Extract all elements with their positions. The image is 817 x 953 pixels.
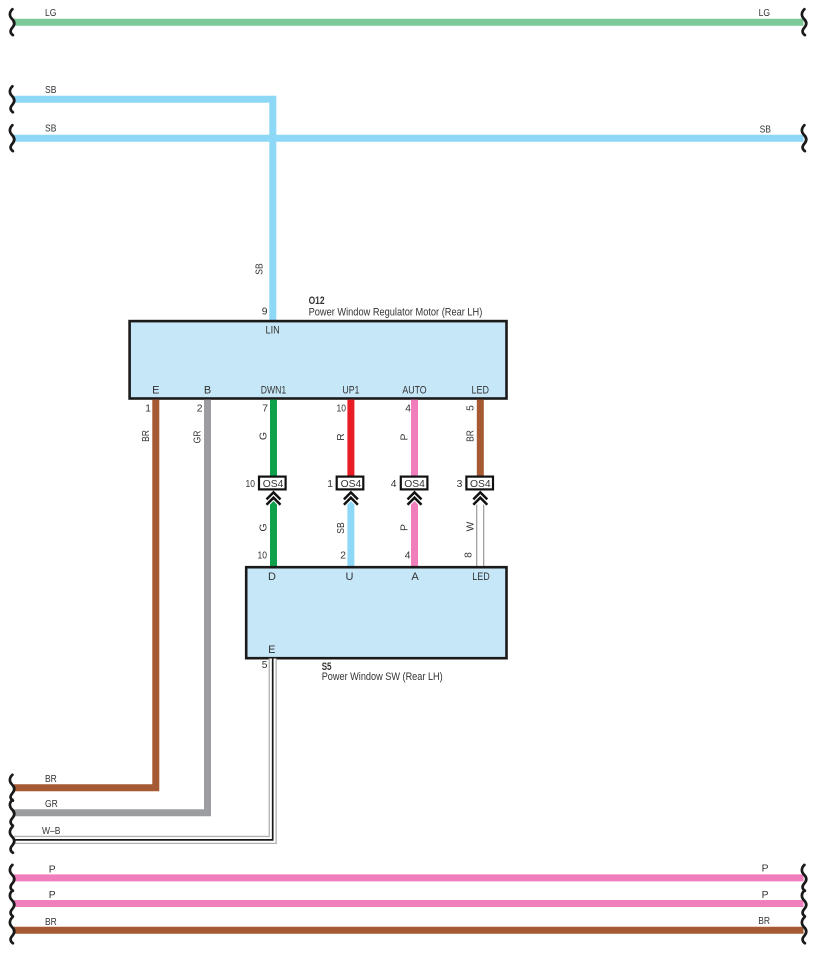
svg-text:GR: GR bbox=[45, 799, 58, 810]
off-page squiggle SB1 left bbox=[10, 86, 14, 112]
off-page squiggle SB2 left bbox=[10, 125, 14, 151]
connector O12 box bbox=[130, 321, 507, 398]
svg-text:W–B: W–B bbox=[42, 826, 61, 837]
off-page squiggle LG left bbox=[10, 9, 14, 35]
svg-text:10: 10 bbox=[246, 479, 256, 490]
svg-text:O12: O12 bbox=[309, 295, 325, 307]
svg-text:Power Window Regulator Motor (: Power Window Regulator Motor (Rear LH) bbox=[309, 307, 483, 319]
wire LG top bbox=[14, 19, 804, 26]
off-page squiggle P1 right bbox=[802, 865, 806, 891]
svg-text:LG: LG bbox=[45, 8, 56, 19]
svg-text:AUTO: AUTO bbox=[402, 385, 427, 397]
off-page squiggle BR bottom right bbox=[802, 917, 806, 943]
wire G from pin DWN1 bbox=[270, 400, 277, 477]
off-page squiggle BR bottom left bbox=[10, 917, 14, 943]
off-page squiggle P2 left bbox=[10, 891, 14, 917]
wire W-B from pin E bbox=[14, 659, 273, 840]
svg-text:D: D bbox=[268, 571, 276, 583]
svg-text:P: P bbox=[49, 865, 56, 876]
connector OS4 c bbox=[401, 477, 428, 490]
svg-text:LED: LED bbox=[472, 385, 490, 397]
svg-text:LG: LG bbox=[759, 8, 770, 19]
svg-text:10: 10 bbox=[258, 551, 268, 562]
svg-text:5: 5 bbox=[262, 660, 268, 671]
svg-text:2: 2 bbox=[340, 551, 346, 562]
svg-text:E: E bbox=[152, 385, 159, 397]
svg-text:SB: SB bbox=[254, 263, 265, 274]
svg-text:BR: BR bbox=[45, 917, 57, 928]
shield arrow OS4 b bbox=[344, 492, 358, 504]
svg-text:OS4: OS4 bbox=[470, 479, 491, 490]
shield arrow OS4 d bbox=[473, 492, 487, 504]
svg-text:G: G bbox=[259, 523, 270, 531]
wire SB below OS4 b bbox=[347, 498, 354, 566]
svg-text:9: 9 bbox=[262, 306, 268, 317]
svg-text:B: B bbox=[204, 385, 211, 397]
svg-text:4: 4 bbox=[391, 479, 397, 490]
svg-text:U: U bbox=[346, 571, 354, 583]
off-page squiggle SB2 right bbox=[802, 125, 806, 151]
svg-text:8: 8 bbox=[464, 552, 475, 558]
svg-text:5: 5 bbox=[466, 405, 477, 411]
svg-text:BR: BR bbox=[758, 916, 770, 927]
svg-text:GR: GR bbox=[193, 431, 204, 444]
connector OS4 a bbox=[259, 477, 286, 490]
wire SB2 bbox=[14, 135, 804, 142]
connector S5 box bbox=[246, 567, 506, 658]
svg-text:P: P bbox=[762, 890, 769, 901]
svg-text:LIN: LIN bbox=[266, 324, 280, 336]
svg-text:A: A bbox=[411, 571, 419, 583]
wire GR from pin B bbox=[14, 400, 208, 813]
svg-text:BR: BR bbox=[465, 430, 476, 442]
svg-text:3: 3 bbox=[457, 479, 463, 490]
off-page squiggle BR left bbox=[10, 775, 14, 801]
svg-text:E: E bbox=[268, 644, 275, 656]
svg-text:OS4: OS4 bbox=[404, 479, 425, 490]
connector OS4 d bbox=[466, 477, 493, 490]
wire W below OS4 d bbox=[476, 498, 484, 566]
svg-text:SB: SB bbox=[45, 124, 56, 135]
wire P2 bottom bbox=[14, 900, 804, 907]
wire G below OS4 a bbox=[270, 498, 277, 566]
svg-text:P: P bbox=[400, 433, 411, 440]
svg-text:SB: SB bbox=[336, 522, 347, 533]
off-page squiggle P1 left bbox=[10, 865, 14, 891]
off-page squiggle GR left bbox=[10, 800, 14, 826]
svg-text:LED: LED bbox=[472, 571, 490, 583]
svg-text:P: P bbox=[400, 524, 411, 531]
svg-text:10: 10 bbox=[337, 403, 347, 414]
shield arrow OS4 a bbox=[267, 492, 281, 504]
wire BR bottom bbox=[14, 927, 804, 934]
svg-text:SB: SB bbox=[45, 85, 56, 96]
svg-text:4: 4 bbox=[405, 403, 411, 414]
svg-text:Power Window SW (Rear LH): Power Window SW (Rear LH) bbox=[322, 671, 443, 683]
svg-text:BR: BR bbox=[141, 430, 152, 442]
off-page squiggle W-B left bbox=[10, 827, 14, 853]
svg-text:P: P bbox=[49, 890, 56, 901]
wire BR from pin E bbox=[14, 400, 156, 788]
svg-text:2: 2 bbox=[197, 403, 203, 414]
off-page squiggle P2 right bbox=[802, 891, 806, 917]
connector OS4 b bbox=[337, 477, 364, 490]
svg-text:UP1: UP1 bbox=[342, 385, 359, 397]
svg-text:OS4: OS4 bbox=[263, 479, 284, 490]
shield arrow OS4 c bbox=[408, 492, 422, 504]
svg-text:DWN1: DWN1 bbox=[261, 385, 287, 397]
svg-text:BR: BR bbox=[45, 774, 57, 785]
off-page squiggle LG right bbox=[802, 9, 806, 35]
wire P1 bottom bbox=[14, 874, 804, 881]
svg-text:P: P bbox=[762, 864, 769, 875]
svg-text:OS4: OS4 bbox=[341, 479, 362, 490]
svg-text:SB: SB bbox=[760, 125, 771, 136]
wire P below OS4 c bbox=[411, 498, 418, 566]
svg-text:7: 7 bbox=[262, 403, 268, 414]
wire SB1 with bend to LIN bbox=[14, 99, 273, 320]
svg-text:1: 1 bbox=[327, 479, 333, 490]
svg-text:W: W bbox=[465, 521, 476, 531]
wire BR from pin LED bbox=[477, 400, 484, 477]
svg-text:4: 4 bbox=[405, 551, 411, 562]
svg-text:G: G bbox=[259, 432, 270, 440]
wire P from pin AUTO bbox=[411, 400, 418, 477]
wire R from pin UP1 bbox=[347, 400, 354, 477]
svg-text:1: 1 bbox=[145, 403, 151, 414]
svg-text:R: R bbox=[336, 433, 347, 440]
